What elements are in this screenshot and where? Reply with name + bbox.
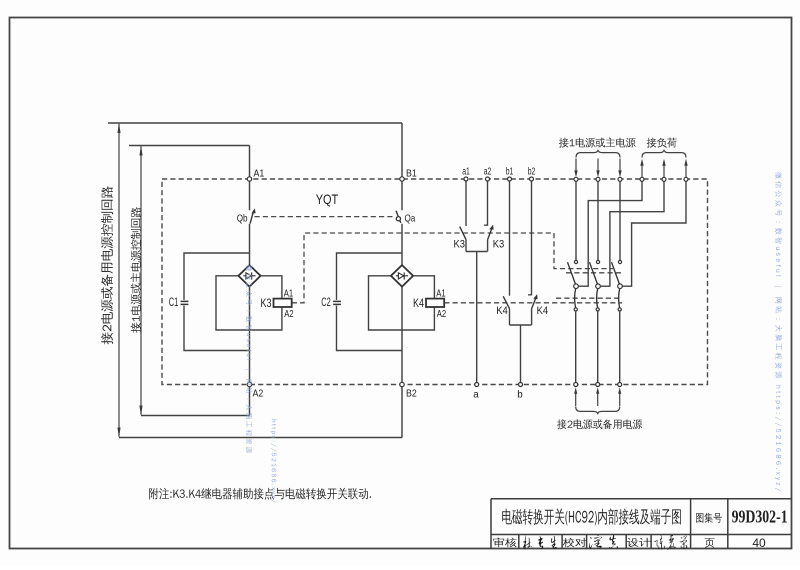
incoming arrow power-1 terminal x=576 [575,159,577,172]
rectifier diamond B [391,265,413,287]
svg-text:A2: A2 [437,309,447,320]
svg-text:K4: K4 [537,305,549,317]
terminal x=576 (top row) [574,177,578,181]
label 页 [705,538,715,548]
svg-text:a: a [473,390,479,401]
contact Qa [396,211,401,223]
label 接负荷 [647,138,677,148]
terminal x=620 (top row) [618,177,622,181]
svg-text:A1: A1 [436,288,446,299]
watermark (middle column 2, url) [271,420,277,503]
underbrace power-2 terminals [576,407,620,415]
wire: circuit-2 control loop top/bottom run [108,123,402,438]
outgoing arrow load terminal x=664 [662,159,665,166]
dashed enclosure: switch internal boundary [162,179,708,385]
terminal b [519,383,523,387]
linkage: K3 coil to K3 contacts and main contacts [292,233,613,303]
main contact pole x=576: lower blade [575,289,576,308]
svg-text:A1: A1 [284,288,294,299]
dimension line: 接1电源或主电源控制回路 [140,146,142,414]
label 接1电源或主电源 [559,137,636,147]
wire: C2 branch loop [337,253,403,351]
label: 接1电源或主电源控制回路 (vertical) [130,207,141,333]
watermark (middle column 1) [245,265,252,453]
svg-text:a1: a1 [462,167,470,178]
terminal x=642 (top row) [640,177,644,181]
svg-text:b: b [517,390,523,401]
title block lines [491,499,792,549]
outgoing arrow load terminal x=686 [684,159,687,166]
svg-text:40: 40 [752,536,766,550]
main contact pole x=598: moving pivot [596,284,601,289]
title 电磁转换开关(HC92)内部接线及端子图 [502,508,681,525]
label 校对 [563,538,587,548]
rectifier diamond A [238,265,260,287]
svg-text:C1: C1 [169,297,179,309]
terminal a [475,383,479,387]
main contact pole x=598: fixed side [597,182,599,261]
wire: main line B (B1..B2) [401,123,403,438]
main contact pole x=576: upper blade [568,262,577,285]
terminal a2 [484,181,487,225]
inner box A [216,276,282,330]
terminal b2 [528,181,531,295]
main contact pole x=620: upper blade [612,262,621,285]
contact K4 (left, on b1) [503,296,509,308]
svg-text:K3: K3 [454,239,466,251]
watermark (right vertical) [774,172,782,491]
svg-text:a2: a2 [484,167,492,178]
main contact pole x=576: fixed side [575,182,577,261]
svg-text:Qb: Qb [237,213,248,225]
wire: load line 1 to pole 1 [578,182,642,287]
svg-text:Qa: Qa [405,213,416,225]
wire: K3 contacts common to terminal a [466,252,488,383]
svg-text:YQT: YQT [316,191,339,207]
svg-text:K3: K3 [261,296,272,310]
incoming arrow power-2 terminal x=576 [574,387,577,394]
label 接2电源或备用电源 [557,419,642,429]
main contact pole x=598: lower blade [597,289,598,308]
main contact pole x=598: upper blade [590,262,599,285]
outgoing arrow load terminal x=642 [640,159,643,166]
wire: main line A (A1..A2) [249,146,251,416]
svg-text:b1: b1 [506,167,514,178]
signature (审核) [523,535,557,549]
wire: pole x=620 down to power-2 terminal [619,311,621,383]
main contact pole x=620: moving pivot [618,284,623,289]
svg-text:B2: B2 [406,388,417,400]
svg-text:99D302-1: 99D302-1 [732,507,788,527]
diode symbol A [243,272,255,279]
inner box B [369,276,435,330]
svg-text:K4: K4 [413,296,424,310]
contact K3 (left, on a1) [460,227,466,240]
svg-text:A2: A2 [253,388,264,400]
terminal x=598 (top row) [596,177,600,181]
node B1 [400,177,404,181]
svg-text:b2: b2 [528,167,536,178]
svg-text:K4: K4 [496,305,508,317]
capacitor C1 [181,301,189,304]
relay coil K4 [426,299,444,307]
label 审核 [493,538,516,548]
svg-text:K3: K3 [493,239,505,251]
note 附注 [149,488,371,500]
diode symbol B [396,272,408,279]
wire: load line 2 to pole 2 [600,182,664,287]
node A1 [247,177,251,181]
wire: pole x=598 down to power-2 terminal [597,311,599,383]
wire: C1 branch loop [184,253,250,351]
svg-text:A2: A2 [284,309,294,320]
label: 接2电源或备用电源控制回路 (vertical) [101,186,113,344]
wire: pole x=576 down to power-2 terminal [575,311,577,383]
signature (校对) [589,534,618,548]
terminal x=686 (top row) [684,177,688,181]
node A2 [247,382,251,386]
svg-text:B1: B1 [406,168,417,180]
incoming arrow power-1 terminal x=598 [597,159,599,172]
label 设计 [627,538,651,547]
wire: K4 contacts common to terminal b [510,325,532,382]
relay coil K3 [274,299,292,307]
contact K4 (right, on b2) [532,298,536,309]
overbrace load terminals [642,150,686,158]
main contact pole x=620: fixed side [619,182,621,261]
wire: load line 3 to pole 3 [622,182,686,287]
capacitor C2 [333,301,341,304]
dimension line: 接2电源或备用电源控制回路 [118,124,120,437]
incoming arrow power-2 terminal x=598 [596,387,599,394]
node B2 [400,382,404,386]
terminal x=664 (top row) [662,177,666,181]
overbrace power-1 terminals [576,150,620,158]
contact Qb [250,211,254,224]
signature (设计) [654,535,687,550]
main contact pole x=620: lower blade [619,289,620,308]
contact K3 (right, on a2) [488,228,492,239]
incoming arrow power-2 terminal x=620 [618,387,621,394]
svg-text:A1: A1 [254,168,265,180]
terminal a1 [465,181,467,226]
main contact pole x=576: moving pivot [574,284,579,289]
wire: circuit-1 control loop top/bottom run [129,146,250,416]
label 图集号 [696,513,722,523]
svg-text:C2: C2 [321,297,331,309]
incoming arrow power-1 terminal x=620 [619,159,621,172]
linkage: Qb-Qa dashed [255,216,396,218]
terminal b1 [509,181,511,296]
linkage: K4 coil to K4 contacts and lower main contacts [444,302,622,304]
